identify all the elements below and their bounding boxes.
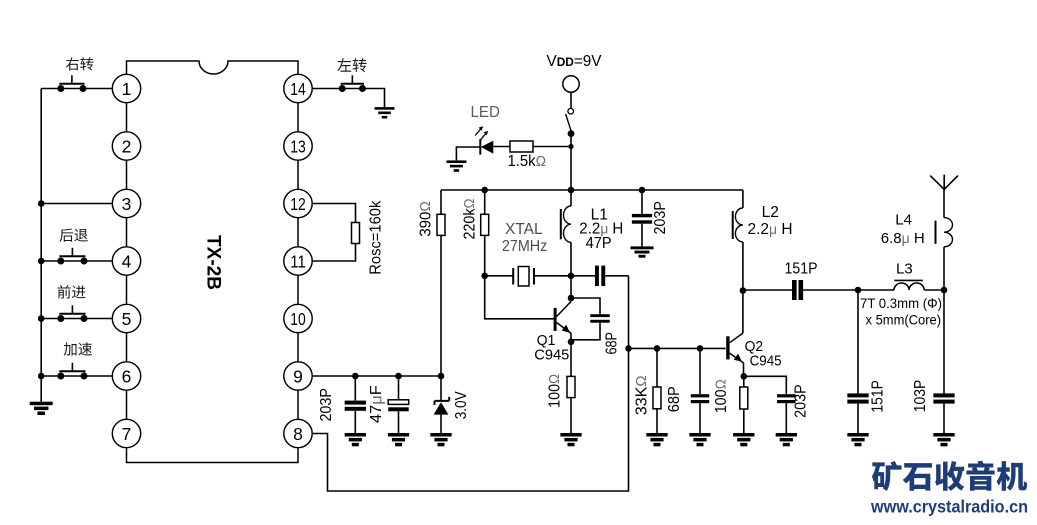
- ground (203P Q2): [776, 433, 797, 446]
- junction base-33K: [654, 345, 661, 352]
- inductor L2 2.2uH: [733, 190, 743, 290]
- wire crystal left: [485, 275, 514, 277]
- IC pin 13 circle: [284, 132, 312, 160]
- resistor 100R (Q2 emitter): [740, 376, 748, 433]
- svg-text:100Ω: 100Ω: [547, 374, 564, 408]
- svg-text:33KΩ: 33KΩ: [633, 375, 650, 415]
- resistor 100R (Q1 emitter): [567, 342, 575, 433]
- switch SW1 power (open contact): [566, 108, 575, 137]
- junction bus-pin5: [38, 315, 45, 322]
- wire node to L3: [858, 289, 894, 291]
- svg-text:9: 9: [293, 366, 303, 386]
- svg-text:4: 4: [122, 251, 132, 271]
- resistor 33KR: [653, 348, 661, 433]
- label VDD=9V: [547, 53, 603, 70]
- label 68P (Q2): [666, 386, 683, 412]
- resistor 220kR: [481, 190, 489, 276]
- ground (47uF): [388, 433, 409, 446]
- svg-text:C945: C945: [534, 347, 569, 364]
- svg-text:2: 2: [122, 136, 132, 156]
- label 220kR: [461, 198, 478, 239]
- label C945 (Q2): [750, 352, 782, 369]
- wire pin8 to Q2 base node (bottom run): [312, 348, 628, 491]
- svg-text:L4: L4: [895, 212, 912, 229]
- IC U1 TX-2B body with pin-1 notch: [127, 61, 299, 463]
- inductor L3: [894, 280, 944, 290]
- label 右转: [66, 57, 94, 70]
- label 203P (Q2): [793, 384, 810, 418]
- svg-text:3.0V: 3.0V: [453, 391, 470, 420]
- svg-text:VDD=9V: VDD=9V: [547, 53, 603, 70]
- capacitor 203P (pin 9): [345, 376, 366, 433]
- junction pin9-zener-390R: [438, 373, 445, 380]
- IC pin 8 circle: [284, 419, 312, 447]
- logo url www.crystalradio.cn: [870, 497, 1028, 517]
- wire VDD rail: [441, 189, 743, 191]
- svg-text:1.5kΩ: 1.5kΩ: [508, 153, 547, 170]
- junction rail-203P: [639, 187, 646, 194]
- label 6.8uH (L4): [881, 230, 925, 247]
- label 1.5kR: [508, 153, 547, 170]
- svg-text:7: 7: [122, 424, 132, 444]
- wire left common bus (pins 1,3,4,5,6 to ground): [40, 89, 42, 402]
- wire pin14 to ground via button: [312, 89, 384, 108]
- wire Q2 emitter to 203P: [744, 376, 787, 394]
- label Rosc=160k: [367, 200, 384, 274]
- junction base-68P: [697, 345, 704, 352]
- label 203P (rail): [652, 201, 669, 235]
- IC pin 14 circle: [284, 74, 312, 102]
- svg-text:2.2μ H: 2.2μ H: [748, 221, 793, 238]
- junction bus-pin3: [38, 200, 45, 207]
- svg-text:7T 0.3mm (Φ): 7T 0.3mm (Φ): [860, 295, 942, 311]
- svg-text:Rosc=160k: Rosc=160k: [367, 200, 384, 274]
- pushbutton 左转 (left turn): [339, 75, 366, 92]
- svg-text:x 5mm(Core): x 5mm(Core): [866, 311, 942, 327]
- capacitor 47P: [571, 266, 629, 287]
- svg-text:11: 11: [290, 251, 306, 271]
- svg-text:47P: 47P: [586, 235, 612, 252]
- transistor Q2 C945: [726, 290, 743, 376]
- capacitor 68P (Q1 feedback): [571, 298, 610, 340]
- logo text 矿石收音机: [872, 461, 1027, 491]
- svg-text:47μF: 47μF: [368, 385, 385, 423]
- label LED: [471, 104, 501, 121]
- label 100R (Q2): [713, 379, 730, 413]
- LED D1: [475, 126, 493, 154]
- junction Q2 emitter: [741, 373, 748, 380]
- junction bus-pin6: [38, 373, 45, 380]
- label 加速: [64, 342, 92, 355]
- junction bus-pin4: [38, 258, 45, 265]
- label x 5mm(Core): [866, 311, 942, 327]
- wire crystal right: [534, 275, 571, 277]
- svg-text:68P: 68P: [666, 386, 683, 412]
- label 2.2uH (L2): [748, 221, 793, 238]
- IC pin 1 circle: [112, 74, 140, 102]
- ground (203P pin9): [345, 433, 366, 446]
- svg-text:www.crystalradio.cn: www.crystalradio.cn: [870, 497, 1028, 517]
- label L2: [762, 204, 779, 221]
- label 47uF: [368, 385, 385, 423]
- wire switch to rail: [570, 134, 572, 191]
- junction L1-crystal-47P (Q1 collector node): [568, 273, 575, 280]
- svg-text:1: 1: [122, 79, 132, 99]
- junction 151P-L3: [855, 287, 862, 294]
- label 2.2uH (L1): [579, 220, 623, 237]
- wire LED cathode to ground: [456, 147, 480, 160]
- junction rail-220k: [481, 187, 488, 194]
- crystal XTAL 27MHz: [513, 267, 534, 287]
- wire pin6 row: [41, 375, 112, 377]
- svg-text:L2: L2: [762, 204, 779, 221]
- antenna ANT: [930, 175, 958, 190]
- capacitor 103P: [933, 290, 954, 433]
- label 7T 0.3mm (Phi): [860, 295, 942, 311]
- svg-text:C945: C945: [750, 352, 782, 369]
- junction switch-LED resistor: [568, 144, 573, 149]
- junction 220k-crystal-base: [481, 273, 488, 280]
- inductor L4 6.8uH: [936, 189, 953, 290]
- IC pin 7 circle: [112, 419, 140, 447]
- label 103P: [912, 380, 929, 413]
- svg-text:203P: 203P: [652, 201, 669, 235]
- IC pin 11 circle: [284, 247, 312, 275]
- capacitor 203P (rail): [632, 190, 652, 246]
- label 27MHz: [502, 238, 548, 255]
- junction Q2 collector-L2-151P: [740, 287, 747, 294]
- IC pin 4 circle: [112, 247, 140, 275]
- resistor 390R: [437, 190, 445, 376]
- svg-text:220kΩ: 220kΩ: [461, 198, 478, 239]
- svg-text:6.8μ H: 6.8μ H: [881, 230, 925, 247]
- IC U1 label TX-2B: [203, 235, 224, 290]
- label L1: [591, 206, 608, 223]
- label XTAL: [505, 221, 543, 238]
- label L3: [896, 260, 913, 277]
- capacitor 47uF electrolytic: [388, 376, 409, 433]
- wire pin1 row: [41, 88, 112, 90]
- junction Q1 emitter-68P: [568, 339, 575, 346]
- ground (151P): [847, 433, 868, 446]
- capacitor 151P (shunt): [847, 290, 868, 433]
- IC pin 3 circle: [112, 189, 140, 217]
- svg-text:12: 12: [290, 194, 306, 214]
- label 左转: [337, 58, 366, 72]
- svg-text:203P: 203P: [318, 388, 335, 422]
- svg-text:27MHz: 27MHz: [502, 238, 548, 255]
- svg-text:13: 13: [290, 136, 306, 156]
- label 100R (Q1): [547, 374, 564, 408]
- ground (Q2 emitter): [733, 433, 754, 446]
- svg-text:8: 8: [293, 424, 303, 444]
- junction L3-L4-antenna: [941, 287, 948, 294]
- junction Q2 base node: [625, 345, 632, 352]
- IC pin 9 circle: [284, 362, 312, 390]
- label Q1: [537, 332, 556, 349]
- ground (left-turn button): [375, 107, 395, 118]
- svg-text:390Ω: 390Ω: [417, 201, 434, 237]
- wire VDD to switch: [570, 92, 572, 108]
- svg-text:LED: LED: [471, 104, 501, 121]
- IC pin 6 circle: [112, 362, 140, 390]
- IC pin 10 circle: [284, 304, 312, 332]
- ground (zener): [430, 433, 451, 446]
- IC pin 2 circle: [112, 132, 140, 160]
- label 151P (shunt): [870, 380, 887, 413]
- inductor L1 2.2uH: [561, 190, 571, 276]
- junction pin9-203P: [352, 373, 359, 380]
- ground (left bus): [30, 402, 53, 415]
- svg-text:5: 5: [122, 309, 132, 329]
- wire pin9 node: [312, 375, 441, 377]
- svg-text:151P: 151P: [785, 261, 818, 278]
- label 3.0V: [453, 391, 470, 420]
- svg-text:203P: 203P: [793, 384, 810, 418]
- junction Q1 collector-68P: [568, 295, 575, 302]
- label 390R: [417, 201, 434, 237]
- pushbutton 后退 (backward): [57, 248, 87, 265]
- svg-text:XTAL: XTAL: [505, 221, 543, 238]
- svg-text:10: 10: [290, 309, 306, 329]
- transistor Q1 C945: [554, 276, 572, 342]
- ground (68P Q2): [689, 433, 710, 446]
- svg-text:103P: 103P: [912, 380, 929, 413]
- junction rail-VDD: [568, 187, 575, 194]
- label 后退: [60, 228, 88, 241]
- svg-text:L3: L3: [896, 260, 913, 277]
- label 33KR: [633, 375, 650, 415]
- label 151P (coupling): [785, 261, 818, 278]
- svg-text:TX-2B: TX-2B: [203, 235, 224, 290]
- IC pin 12 circle: [284, 189, 312, 217]
- svg-text:3: 3: [122, 194, 132, 214]
- capacitor 151P (coupling): [743, 280, 858, 300]
- wire 47P to Q2 base node: [628, 276, 630, 349]
- label L4: [895, 212, 912, 229]
- pushbutton 加速 (accelerate): [57, 363, 87, 380]
- power terminal VDD circle: [563, 76, 579, 92]
- capacitor 68P (Q2 base): [691, 348, 710, 433]
- svg-text:6: 6: [122, 366, 132, 386]
- pushbutton 右转 (right turn): [57, 75, 86, 92]
- ground (103P): [933, 433, 954, 446]
- zener diode 3.0V: [434, 376, 450, 433]
- label C945 (Q1): [534, 347, 569, 364]
- resistor 1.5kR: [494, 141, 572, 152]
- ground (203P rail): [631, 246, 654, 257]
- ground (Q1 emitter): [560, 433, 581, 446]
- svg-text:68P: 68P: [604, 332, 621, 355]
- capacitor 203P (Q2 emitter): [777, 394, 796, 433]
- label Q2: [745, 338, 764, 355]
- svg-text:151P: 151P: [870, 380, 887, 413]
- wire pin4 row: [41, 260, 112, 262]
- resistor Rosc=160k: [312, 204, 359, 262]
- wire base detour (crystal node to Q1 base): [485, 276, 555, 319]
- ground (33K): [646, 433, 667, 446]
- junction pin9-47uF: [395, 373, 402, 380]
- ground (LED): [446, 160, 466, 171]
- label 68P (Q1): [604, 332, 621, 355]
- label 前进: [58, 285, 86, 298]
- svg-text:14: 14: [290, 79, 306, 99]
- pushbutton 前进 (forward): [57, 305, 87, 322]
- IC pin 5 circle: [112, 304, 140, 332]
- wire pin5 row: [41, 318, 112, 320]
- wire pin3 to bus: [41, 203, 112, 205]
- svg-text:100Ω: 100Ω: [713, 379, 730, 413]
- wire Q2 base line: [629, 347, 726, 349]
- label 47P: [586, 235, 612, 252]
- label 203P (pin 9): [318, 388, 335, 422]
